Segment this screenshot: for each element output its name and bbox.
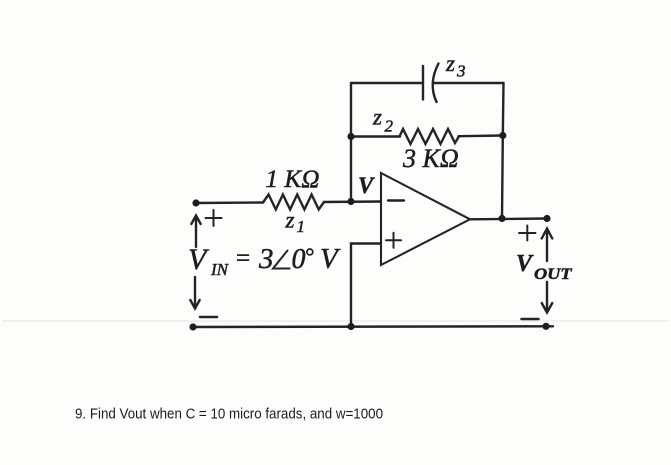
svg-text:OUT: OUT <box>534 266 572 283</box>
svg-text:z: z <box>445 51 455 76</box>
op-amp U1 triangle <box>381 173 470 265</box>
node: output junction <box>498 215 505 222</box>
resistor Z1 zigzag <box>263 195 324 210</box>
svg-text:3: 3 <box>456 62 466 81</box>
svg-text:V: V <box>320 243 341 275</box>
wire: Z1 to node V <box>324 200 381 203</box>
wire: input left segment <box>196 201 263 204</box>
svg-text:9. Find Vout when C = 10 micro: 9. Find Vout when C = 10 micro farads, a… <box>75 407 383 423</box>
plus sign at Vout <box>519 226 536 241</box>
capacitor Z3 right plate <box>433 64 439 103</box>
wire: left vertical feedback <box>350 83 352 202</box>
svg-text:3 KΩ: 3 KΩ <box>402 144 459 173</box>
svg-text:V: V <box>516 251 534 277</box>
plus sign at Vin <box>206 210 222 226</box>
node: ground right terminal <box>542 323 549 330</box>
wire: op-amp output <box>470 217 547 220</box>
svg-text:2: 2 <box>385 117 394 136</box>
node: input terminal <box>192 199 199 206</box>
wire: top feedback right of capacitor <box>434 82 504 84</box>
arrow up at Vout <box>542 229 553 262</box>
svg-text:z: z <box>372 105 382 130</box>
minus sign at Vin <box>200 316 217 319</box>
node: feedback left junction <box>347 133 354 140</box>
svg-text:1: 1 <box>297 217 306 236</box>
arrow down at Vin <box>190 277 199 309</box>
resistor Z2 zigzag <box>400 129 460 144</box>
svg-text:°: ° <box>305 244 314 269</box>
wire: non-inverting input <box>351 244 381 327</box>
svg-text:V: V <box>188 243 210 276</box>
svg-text:V: V <box>358 173 375 198</box>
node: ground middle junction <box>347 323 354 330</box>
svg-text:0: 0 <box>292 244 306 275</box>
op-amp minus input symbol <box>388 199 404 201</box>
svg-text:z: z <box>285 208 295 233</box>
wire: Z2 left segment <box>351 135 400 137</box>
svg-text:=: = <box>236 245 250 272</box>
wire: Z2 right segment <box>459 134 503 137</box>
node: feedback right junction <box>499 132 506 139</box>
arrow down at Vout <box>542 282 553 313</box>
svg-text:3: 3 <box>258 243 274 275</box>
node: ground left terminal <box>189 323 196 330</box>
svg-text:1 KΩ: 1 KΩ <box>266 166 320 193</box>
op-amp plus input symbol <box>386 233 401 248</box>
svg-text:IN: IN <box>210 260 230 279</box>
node: output terminal <box>543 215 550 222</box>
wire: bottom ground rail <box>193 325 553 328</box>
node V junction dot <box>347 198 354 205</box>
arrow up at Vin <box>191 216 200 248</box>
wire: right vertical feedback <box>502 83 504 219</box>
angle symbol in 3∠0° <box>273 251 290 269</box>
capacitor Z3 left plate <box>422 66 424 100</box>
wire: top feedback left of capacitor <box>351 82 423 84</box>
minus sign at Vout <box>522 318 539 321</box>
scan artifact line <box>2 320 668 322</box>
